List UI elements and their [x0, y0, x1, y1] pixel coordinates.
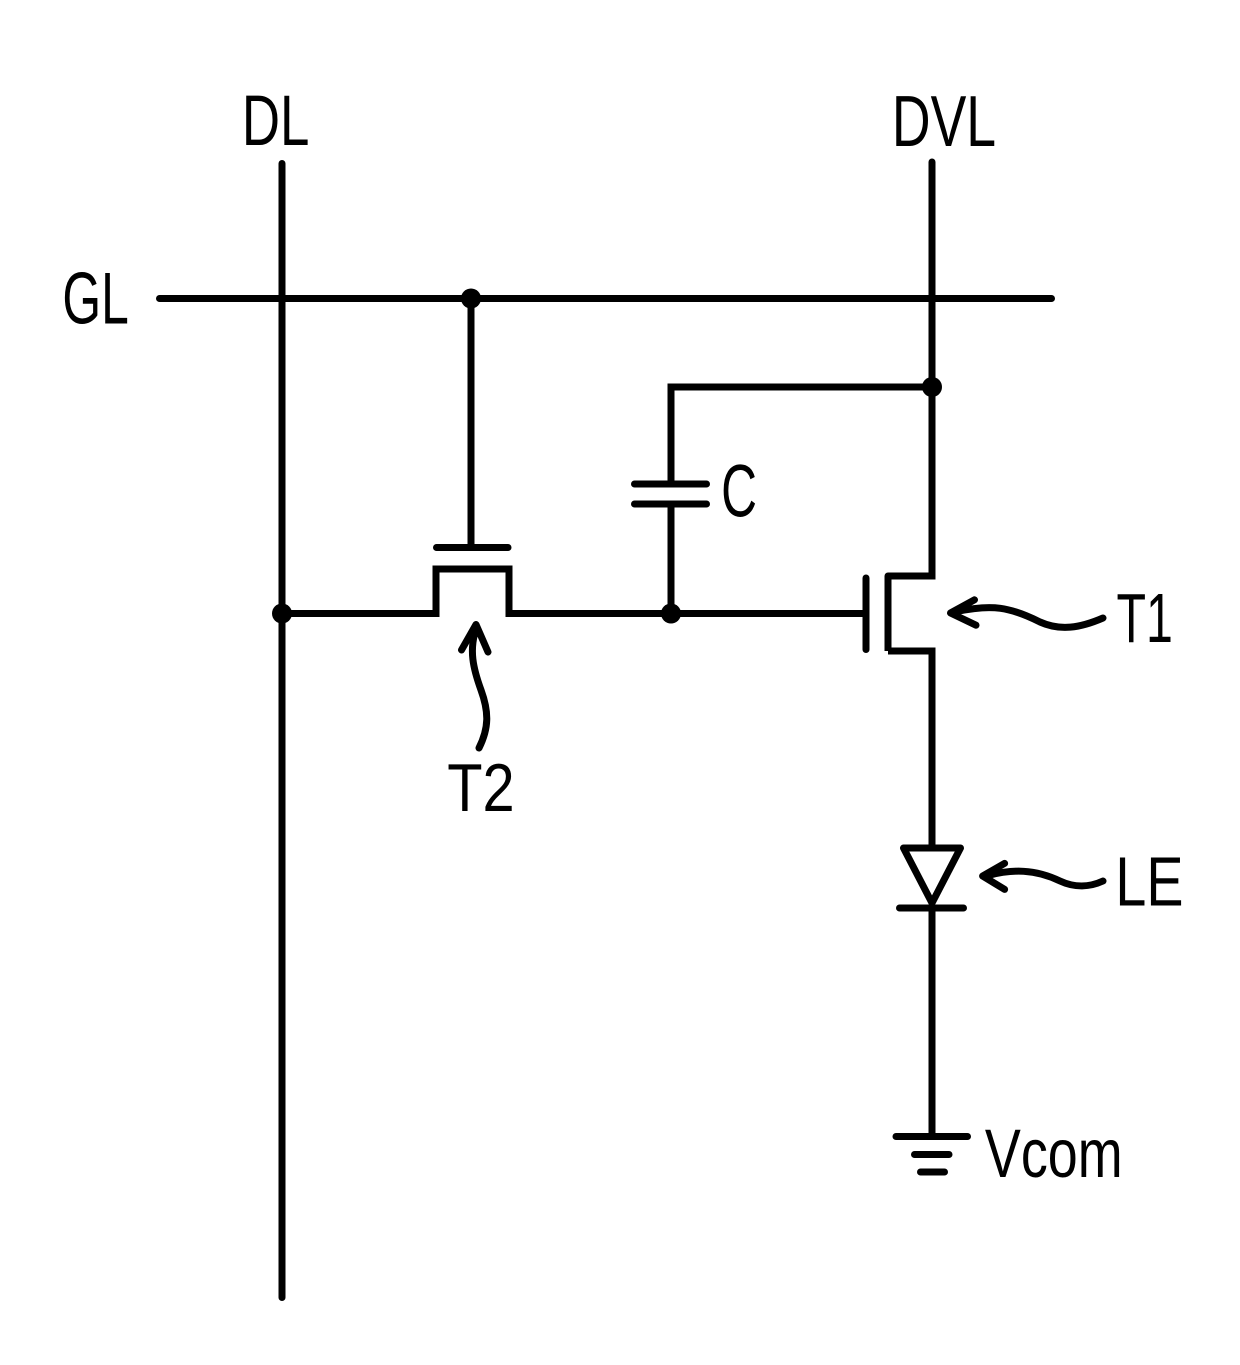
wire T1 source to LED [888, 651, 932, 848]
arrow leader for LE [988, 871, 1103, 886]
wire LED cathode to ground [929, 908, 936, 1137]
label GL [62, 258, 128, 340]
wire capacitor top lead [671, 387, 932, 614]
svg-text:T1: T1 [1117, 579, 1173, 657]
label DVL [892, 82, 996, 161]
label T1 [1117, 579, 1173, 657]
svg-text:DL: DL [242, 81, 310, 160]
arrow leader for T1 [957, 608, 1103, 628]
ground Vcom bottom bar [921, 1169, 945, 1176]
wire T2 gate connection [468, 299, 475, 546]
svg-text:GL: GL [62, 258, 128, 340]
svg-text:T2: T2 [447, 751, 514, 826]
wire GL gate line [160, 295, 1052, 302]
LED LE triangle [904, 848, 961, 903]
svg-text:DVL: DVL [892, 82, 996, 161]
transistor T1 gate bar [863, 578, 870, 650]
label T2 [447, 751, 514, 826]
node junction DL x node wire [272, 604, 292, 624]
LED LE cathode bar [900, 905, 964, 912]
capacitor C top plate [635, 481, 707, 488]
arrow leader for T2 [472, 629, 486, 748]
transistor T2 gate bar [437, 544, 509, 551]
label DL [242, 81, 310, 160]
wire node from T2 drain to T1 gate [509, 610, 866, 617]
ground Vcom top bar [896, 1133, 968, 1140]
node junction GL x T2 gate [461, 289, 481, 309]
label C [721, 451, 757, 533]
svg-text:Vcom: Vcom [985, 1116, 1123, 1193]
label Vcom [985, 1116, 1123, 1193]
transistor T1 channel bar [885, 576, 892, 651]
svg-text:LE: LE [1115, 844, 1183, 921]
svg-text:C: C [721, 451, 757, 533]
wire DVL driving voltage line [888, 162, 932, 576]
capacitor C bottom plate [635, 501, 707, 508]
node junction capacitor x node wire [661, 604, 681, 624]
node junction DVL x capacitor wire [922, 377, 942, 397]
transistor T2 channel [436, 569, 509, 617]
wire DL data line [279, 164, 286, 1298]
ground Vcom middle bar [915, 1151, 950, 1158]
label LE [1115, 844, 1183, 921]
wire node from DL to T2 source [282, 610, 436, 617]
